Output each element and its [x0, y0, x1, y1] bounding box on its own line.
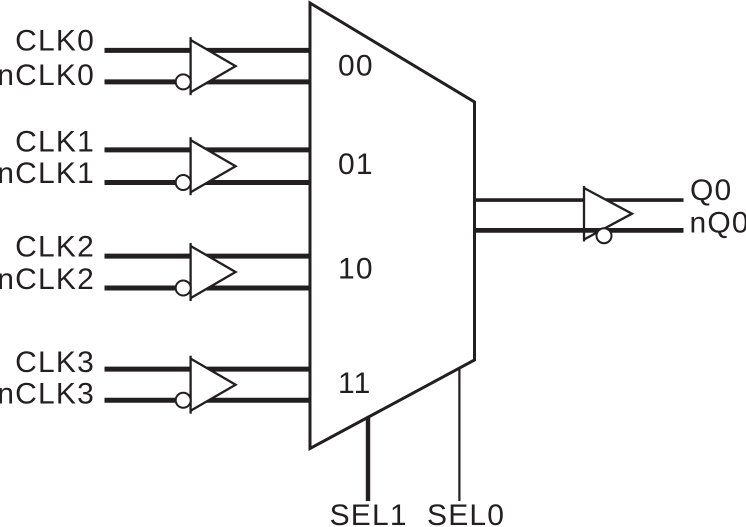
output buffer U5	[584, 188, 632, 240]
wire SEL0	[458, 368, 460, 502]
svg-text:CLK1: CLK1	[15, 126, 95, 159]
svg-text:nCLK1: nCLK1	[0, 157, 95, 190]
wire CLK0	[105, 48, 312, 53]
wire nCLK3	[105, 398, 312, 403]
wire nQ0	[475, 228, 684, 233]
wire nCLK2	[105, 286, 312, 291]
svg-text:CLK3: CLK3	[15, 346, 95, 379]
svg-text:nCLK0: nCLK0	[0, 59, 95, 92]
svg-text:CLK0: CLK0	[15, 25, 95, 58]
inversion bubble on nCLK1	[176, 175, 191, 190]
wire SEL1	[366, 417, 370, 502]
wire CLK1	[105, 147, 312, 152]
svg-text:SEL0: SEL0	[427, 499, 505, 527]
svg-text:CLK2: CLK2	[15, 231, 95, 264]
svg-text:11: 11	[338, 367, 372, 400]
inversion bubble on nCLK0	[176, 74, 191, 89]
input buffer U4 (CLK3 pair)	[191, 359, 236, 411]
svg-text:Q0: Q0	[690, 174, 732, 207]
wire nCLK1	[105, 180, 312, 185]
svg-text:10: 10	[338, 253, 374, 286]
input buffer U1 (CLK0 pair)	[191, 40, 236, 92]
input buffer U2 (CLK1 pair)	[191, 140, 236, 192]
wire Q0	[475, 198, 684, 202]
mux M1 body	[310, 3, 475, 449]
svg-text:01: 01	[338, 148, 374, 181]
wire CLK2	[105, 254, 312, 259]
svg-text:00: 00	[338, 50, 374, 83]
svg-text:SEL1: SEL1	[330, 499, 408, 527]
input buffer U3 (CLK2 pair)	[191, 246, 236, 298]
svg-text:nCLK3: nCLK3	[0, 377, 95, 410]
svg-text:nCLK2: nCLK2	[0, 263, 95, 296]
inversion bubble on nQ0	[597, 228, 612, 243]
inversion bubble on nCLK3	[176, 393, 191, 408]
svg-text:nQ0: nQ0	[690, 206, 746, 239]
inversion bubble on nCLK2	[176, 281, 191, 296]
wire nCLK0	[105, 79, 312, 84]
wire CLK3	[105, 367, 312, 372]
